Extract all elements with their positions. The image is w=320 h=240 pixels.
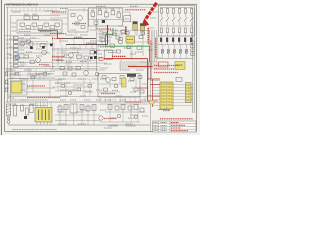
pin U16t4 bbox=[50, 102, 52, 108]
label speck bbox=[128, 117, 134, 119]
tuner pin 0 bbox=[99, 97, 101, 102]
CN2 pin 6 bbox=[161, 101, 166, 103]
boxA rail bbox=[18, 29, 61, 31]
label C21 bbox=[98, 8, 102, 10]
table hline2 bbox=[153, 126, 197, 128]
v bbox=[59, 104, 61, 125]
label speck bbox=[36, 55, 42, 57]
v bbox=[101, 30, 103, 44]
CN2 wire 6 bbox=[173, 102, 193, 104]
v bbox=[136, 30, 138, 36]
label speck bbox=[90, 29, 96, 31]
label speck bbox=[124, 47, 130, 49]
bottom rail 1 bbox=[6, 101, 150, 103]
lbl bbox=[108, 125, 118, 127]
pin U15c bbox=[20, 83, 26, 85]
resistor R52 bbox=[110, 44, 115, 47]
CN3 pin 1 bbox=[186, 87, 190, 89]
table hline1 bbox=[153, 123, 197, 125]
v bbox=[9, 68, 11, 79]
wire bbox=[52, 62, 107, 64]
mb rail3 bbox=[100, 121, 140, 123]
resistor RK1 bbox=[166, 9, 168, 14]
v bbox=[35, 69, 37, 79]
red note cn line2 bbox=[154, 68, 174, 70]
red note mb1 bbox=[125, 101, 142, 103]
transistor Q5 bbox=[42, 50, 47, 55]
label speck bbox=[96, 57, 102, 59]
label speck bbox=[70, 29, 76, 31]
capacitor C55 bbox=[139, 36, 143, 39]
diode D8 red bbox=[99, 57, 103, 60]
label speck bbox=[60, 99, 66, 101]
capacitor C73 bbox=[58, 106, 62, 112]
wire RK4 bot bbox=[185, 13, 187, 17]
diode Dm2 bbox=[94, 51, 97, 54]
resistor RK3b bbox=[178, 28, 180, 33]
capacitor C51 bbox=[100, 38, 105, 42]
label speck bbox=[60, 89, 70, 91]
resistor R12 bbox=[33, 16, 39, 19]
lbl bbox=[128, 80, 134, 82]
resistor R31 bbox=[20, 42, 25, 45]
label speck bbox=[104, 63, 112, 65]
switch SW4 bbox=[184, 17, 187, 21]
resistor RK5 bbox=[190, 9, 192, 14]
mesh v bbox=[81, 53, 83, 66]
label speck bbox=[30, 37, 36, 39]
pin label 1 bbox=[20, 41, 25, 43]
h87 bbox=[52, 86, 90, 88]
bus part P3 bbox=[191, 53, 194, 56]
v bbox=[143, 31, 145, 36]
border frame bbox=[5, 4, 197, 131]
resistor RK2 bbox=[172, 9, 174, 14]
wire SW1 down bbox=[167, 22, 169, 27]
switch SW3 bbox=[178, 17, 181, 21]
CN2 wireL 7 bbox=[152, 105, 160, 107]
wire bbox=[10, 66, 55, 68]
CN2 pin 5 bbox=[161, 98, 166, 100]
wire RK3b down bbox=[179, 33, 181, 36]
label speck bbox=[75, 84, 83, 86]
v bbox=[127, 43, 129, 46]
red net bus2 bbox=[150, 40, 152, 79]
pin U15a bbox=[5, 83, 9, 85]
wire LED1 b bbox=[168, 53, 170, 58]
capacitor C15 bbox=[94, 21, 98, 24]
CN2 pin 3 bbox=[161, 92, 166, 94]
table red cell r1 bbox=[171, 124, 185, 126]
v bbox=[57, 58, 59, 64]
label speck bbox=[70, 99, 76, 101]
CN2 wire 7 bbox=[173, 105, 193, 107]
v bbox=[61, 50, 63, 63]
pin U16t1 bbox=[40, 102, 42, 108]
v bbox=[43, 75, 45, 80]
capacitor C21 bbox=[98, 11, 102, 15]
lbl bbox=[58, 123, 66, 125]
h75 bbox=[6, 74, 50, 76]
label speck bbox=[130, 114, 138, 116]
v bbox=[23, 78, 25, 92]
CN2 wireL 0 bbox=[152, 84, 160, 86]
resistor R41 bbox=[77, 55, 82, 58]
table vline1 bbox=[158, 121, 160, 132]
resistor RK5b bbox=[190, 28, 192, 33]
h bbox=[20, 41, 48, 43]
resistor Rb3 bbox=[88, 85, 92, 88]
resistor R25 bbox=[71, 14, 75, 17]
red note pwr1 bbox=[27, 85, 45, 87]
transistor Q4 blue highlight bbox=[15, 55, 20, 60]
tuner pin 2 bbox=[109, 97, 111, 102]
page edge bbox=[0, 0, 2, 135]
wire RK4b down bbox=[185, 33, 187, 36]
capacitor C31 bbox=[24, 55, 29, 58]
filter FB1 bbox=[176, 78, 182, 82]
wire RK1 bot bbox=[167, 13, 169, 17]
resistor Ra1 bbox=[126, 32, 130, 35]
table red cell r2 bbox=[171, 127, 181, 129]
mesh v bbox=[65, 45, 67, 67]
resistor RK1b bbox=[166, 28, 168, 33]
wire bbox=[135, 41, 150, 43]
bundle v2 bbox=[152, 30, 154, 62]
label speck bbox=[80, 95, 86, 97]
resistor R25 bbox=[50, 26, 55, 29]
v bbox=[59, 38, 61, 44]
v bbox=[27, 68, 29, 79]
switch SW2 bbox=[172, 17, 175, 21]
bundle drop bbox=[119, 62, 121, 70]
regulator U6 bbox=[40, 44, 45, 47]
bundle v3 bbox=[154, 30, 156, 62]
table vline2 bbox=[169, 121, 171, 132]
v bbox=[59, 30, 61, 35]
label speck bbox=[105, 99, 113, 101]
bundle v1 bbox=[150, 30, 152, 62]
label speck bbox=[90, 40, 98, 42]
CN2 wire 0 bbox=[173, 84, 193, 86]
transistor Qb1 bbox=[68, 91, 72, 95]
v bbox=[131, 43, 133, 59]
diode D5 bbox=[30, 47, 33, 50]
keypad mid rail bbox=[160, 25, 193, 27]
wire RK3 top bbox=[179, 7, 181, 8]
lbl bbox=[92, 78, 98, 80]
wire E1 bbox=[134, 30, 136, 34]
label speck bbox=[30, 103, 36, 105]
label speck bbox=[96, 89, 102, 91]
label speck bbox=[118, 25, 124, 27]
wire RK0b down bbox=[161, 33, 163, 36]
LED tick 2 bbox=[173, 50, 175, 53]
v bbox=[122, 104, 124, 122]
CN2 pin 0r bbox=[168, 83, 173, 85]
red note amp1 bbox=[52, 56, 65, 58]
red label on trace bbox=[112, 55, 126, 57]
red net cn c bbox=[148, 95, 160, 97]
wire bbox=[66, 44, 100, 46]
mesh v bbox=[61, 45, 63, 54]
v bbox=[83, 38, 85, 45]
label speck bbox=[100, 67, 108, 69]
keypad left edge lower bbox=[157, 36, 159, 58]
red box K-IN bbox=[159, 62, 169, 67]
resistor Rl2 bbox=[31, 76, 35, 79]
lbl bbox=[108, 52, 116, 54]
comparator U3 bbox=[124, 16, 131, 22]
label speck bbox=[136, 69, 144, 71]
pin label 3 bbox=[20, 49, 25, 51]
tuner label dark bbox=[127, 74, 136, 77]
mesh v bbox=[69, 58, 71, 66]
diode D6 bbox=[42, 46, 45, 49]
label speck bbox=[100, 46, 108, 48]
section box A bbox=[17, 20, 62, 33]
IC U15 yellow bbox=[11, 81, 22, 93]
red net cn b bbox=[150, 84, 160, 86]
wire bbox=[129, 12, 131, 16]
wire bbox=[99, 8, 101, 11]
v bbox=[45, 69, 47, 75]
wire bbox=[50, 17, 62, 19]
lbl bbox=[135, 51, 143, 53]
red net cn a bbox=[148, 78, 160, 80]
label speck bbox=[130, 53, 136, 55]
resistor RK0b bbox=[160, 28, 162, 33]
wire LED2 b bbox=[174, 53, 176, 58]
boxA drop1 bbox=[21, 26, 23, 29]
section box C bbox=[89, 8, 123, 26]
label speck bbox=[64, 54, 69, 56]
label speck bbox=[55, 82, 63, 84]
wire bbox=[55, 75, 100, 77]
CN2 pin 1 bbox=[161, 86, 166, 88]
wire SW5 down bbox=[191, 22, 193, 27]
transistor Q11 bbox=[119, 40, 123, 44]
LED D34 bbox=[185, 49, 187, 53]
diode D9 bbox=[94, 56, 97, 59]
v bbox=[93, 104, 95, 125]
wire bbox=[14, 62, 52, 64]
capacitor C82 bbox=[121, 105, 125, 110]
capacitor C75 bbox=[80, 105, 84, 110]
table c2 r1 bbox=[161, 124, 167, 126]
CN2 pin 2r bbox=[168, 89, 173, 91]
wire SW0 down bbox=[161, 22, 163, 27]
mesh h bbox=[52, 48, 96, 50]
wire K2 down bbox=[173, 42, 175, 45]
resistor R24 bbox=[44, 23, 49, 26]
tuner pin 4 bbox=[119, 97, 121, 102]
v bbox=[137, 104, 139, 122]
connector part 3 bbox=[14, 49, 19, 52]
resistor Rl1 bbox=[15, 73, 19, 76]
label speck bbox=[36, 48, 42, 50]
mesh h bbox=[52, 66, 100, 68]
wire SW4 down bbox=[185, 22, 187, 27]
label speck bbox=[148, 49, 153, 51]
CN2 pin 0 bbox=[161, 83, 166, 85]
red net under CN2 bbox=[158, 109, 170, 111]
label speck bbox=[66, 61, 72, 63]
table c2 r2 bbox=[161, 127, 167, 129]
capacitor Cu1 bbox=[127, 46, 131, 49]
red vertical note under arrow bbox=[147, 28, 149, 44]
wire K0 down bbox=[161, 42, 163, 45]
boxA drop3 bbox=[45, 26, 47, 29]
resistor R42 bbox=[84, 56, 88, 59]
wire bbox=[95, 24, 97, 29]
capacitor C41 bbox=[63, 72, 67, 75]
CN2 wireL 2 bbox=[152, 90, 160, 92]
wire bbox=[24, 91, 50, 93]
CN5 pins bbox=[176, 64, 183, 66]
transistor Q2 bbox=[78, 16, 83, 21]
wire RK5 bot bbox=[191, 13, 193, 17]
diode D15 bbox=[24, 116, 27, 119]
diode D7 bbox=[50, 44, 53, 47]
resistor RK4 bbox=[184, 9, 186, 14]
capacitor C72 bbox=[26, 108, 29, 115]
label speck bbox=[106, 34, 112, 36]
label speck bbox=[48, 73, 54, 75]
capacitor C23 bbox=[111, 11, 115, 15]
label speck bbox=[6, 53, 11, 55]
keypad top rail bbox=[160, 6, 193, 8]
v bbox=[119, 79, 121, 85]
label speck bbox=[60, 8, 68, 10]
label C20 bbox=[91, 10, 95, 12]
CN3 pin 0 bbox=[186, 84, 190, 86]
divider v bbox=[52, 36, 54, 69]
connector part 2 bbox=[14, 45, 19, 48]
label speck bbox=[142, 83, 147, 85]
red note tuner bbox=[101, 93, 115, 95]
table c2 r0 bbox=[161, 122, 167, 124]
h bbox=[98, 40, 110, 42]
capacitor Cl3 bbox=[43, 73, 47, 76]
h79 bbox=[55, 78, 90, 80]
left rail 3 bbox=[13, 36, 15, 66]
label speck bbox=[96, 99, 102, 101]
label speck bbox=[110, 117, 116, 119]
CN3 pin 2 bbox=[186, 90, 190, 92]
capacitor C26 bbox=[75, 22, 79, 25]
lbl bbox=[58, 109, 65, 111]
resistor R26 bbox=[55, 23, 60, 26]
v bbox=[65, 104, 67, 125]
wire bbox=[20, 79, 62, 81]
bottom rail 2 bbox=[8, 124, 150, 126]
CN2 pin 1r bbox=[168, 86, 173, 88]
resistor R45 bbox=[60, 67, 64, 70]
v bbox=[75, 32, 77, 36]
pin label 4 bbox=[20, 53, 25, 55]
labels boxB bbox=[51, 19, 59, 21]
v bbox=[135, 79, 137, 89]
v bbox=[127, 31, 129, 37]
wire bbox=[55, 114, 100, 116]
capacitor C57 bbox=[121, 30, 125, 33]
boxA labels bbox=[19, 31, 31, 33]
center vertical rail bbox=[96, 8, 98, 72]
capacitor C72b bbox=[30, 105, 34, 113]
wire LED0 b bbox=[162, 53, 164, 58]
v bbox=[79, 45, 81, 50]
label speck bbox=[20, 63, 26, 65]
mesh v bbox=[53, 46, 55, 57]
label speck bbox=[130, 91, 136, 93]
connector CN2 yellow bbox=[160, 82, 173, 109]
pin U16b4 bbox=[50, 122, 52, 125]
CN2 label bbox=[163, 110, 170, 112]
wire K1 down bbox=[167, 42, 169, 45]
lbl bbox=[72, 52, 79, 54]
R12 label bbox=[33, 13, 38, 15]
LED D30 bbox=[161, 49, 163, 53]
stub J1 bbox=[5, 80, 8, 83]
bridge D16 bbox=[70, 104, 77, 113]
resistor R56 bbox=[116, 36, 120, 39]
rail under keys bbox=[158, 44, 193, 46]
CN2 wireL 5 bbox=[152, 99, 160, 101]
label speck bbox=[140, 61, 148, 63]
rail drop 4 bbox=[83, 7, 85, 12]
label C24 bbox=[117, 11, 121, 13]
v bbox=[73, 83, 75, 91]
CN3 w2 bbox=[191, 93, 193, 95]
lc2 3 bbox=[9, 62, 13, 64]
red vertical note bbox=[125, 27, 127, 36]
CN2 pin 4 bbox=[161, 95, 166, 97]
pin U16t0 bbox=[36, 102, 38, 108]
v bbox=[21, 39, 23, 45]
bundle h3 bbox=[120, 67, 158, 69]
table c1 r2 bbox=[154, 127, 158, 129]
tuner pin 9 bbox=[144, 97, 146, 102]
switch SW5 bbox=[190, 17, 193, 21]
top dashed rule bbox=[42, 3, 152, 5]
resistor R32 bbox=[26, 40, 31, 43]
h91 bbox=[55, 90, 92, 92]
long rail 96 bbox=[8, 96, 148, 98]
v bbox=[109, 104, 111, 122]
resistor R64 bbox=[130, 78, 134, 81]
red note 1 bbox=[52, 11, 66, 13]
label speck bbox=[150, 17, 156, 19]
label speck bbox=[125, 123, 133, 125]
resistor R63 bbox=[120, 76, 124, 79]
wire bbox=[92, 8, 94, 12]
label speck bbox=[96, 53, 102, 55]
wire bbox=[118, 17, 120, 19]
v bbox=[83, 80, 85, 97]
label speck bbox=[10, 73, 18, 75]
pin U16b1 bbox=[40, 122, 42, 125]
red note cn line1 bbox=[154, 65, 180, 67]
v bbox=[142, 36, 144, 56]
label speck bbox=[80, 34, 88, 36]
resistor R20 bbox=[20, 23, 25, 26]
heavy net wire bbox=[58, 37, 97, 39]
resistor R61 bbox=[102, 76, 106, 79]
lbl bbox=[100, 78, 106, 80]
v bbox=[57, 80, 59, 91]
red net 12V vertical bbox=[147, 59, 149, 101]
